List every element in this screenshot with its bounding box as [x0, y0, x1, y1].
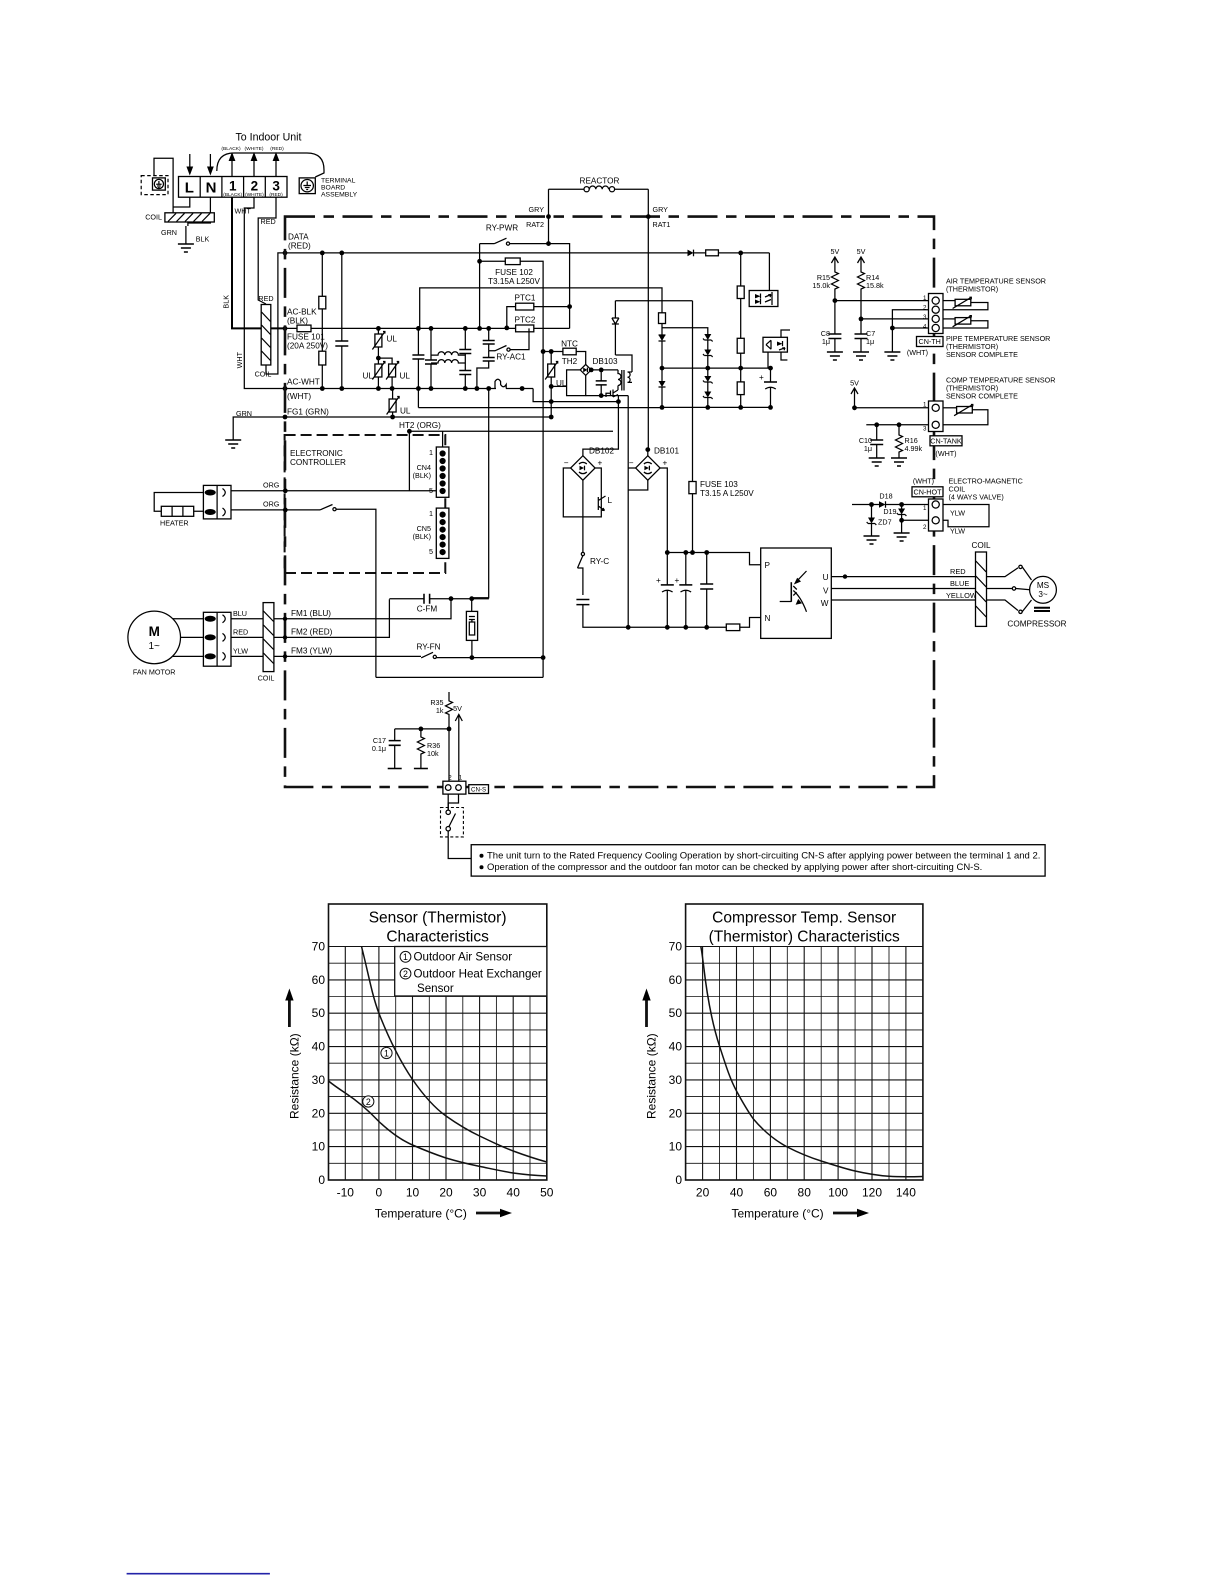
- zener D19: [897, 505, 907, 521]
- label CN-TANK box: [930, 436, 962, 446]
- wire red coil to DATA: [266, 253, 284, 374]
- svg-text:P: P: [765, 561, 771, 570]
- node FM border crossings: [283, 617, 287, 621]
- zener 1: [703, 334, 713, 350]
- svg-text:L: L: [185, 180, 194, 197]
- svg-text:3: 3: [923, 426, 927, 433]
- svg-text:−: −: [629, 459, 634, 468]
- diode on DATA rail: [687, 250, 706, 257]
- smps cap: [596, 368, 607, 399]
- smps output diode: [612, 301, 632, 372]
- zener column top wire to AC-BLK: [420, 288, 662, 329]
- wire AC-WHT tap to rectifier feed: [533, 389, 618, 402]
- hood arc over indoor-unit arrows: [217, 153, 324, 177]
- cap C7: [855, 319, 868, 352]
- svg-text:(RED): (RED): [269, 192, 283, 198]
- valve coil loop: [943, 505, 989, 527]
- svg-text:UL: UL: [400, 407, 411, 416]
- vertical to bottom bus: [627, 396, 629, 628]
- thermal protector: [466, 599, 477, 658]
- red coil choke vertical (hatched): [261, 305, 271, 366]
- svg-text:10: 10: [312, 1140, 326, 1154]
- label CN4 (BLK): [413, 463, 431, 480]
- RY-AC1 cap upper: [483, 326, 495, 351]
- svg-text:(BLK): (BLK): [287, 317, 308, 326]
- svg-text:4: 4: [923, 324, 927, 331]
- node DATA border: [283, 251, 288, 256]
- chart1 title: [369, 910, 507, 946]
- label ELECTRONIC CONTROLLER: [290, 449, 346, 467]
- RY-AC1 switch: [489, 328, 529, 351]
- smps transformer: [618, 370, 632, 391]
- chart2 y labels: [669, 940, 683, 1188]
- svg-text:UL: UL: [387, 335, 398, 344]
- svg-text:2: 2: [366, 1097, 371, 1107]
- dashed switch box: [441, 794, 464, 837]
- node bus1: [665, 550, 670, 555]
- svg-text:(BLK): (BLK): [413, 471, 431, 480]
- svg-text:0: 0: [318, 1173, 325, 1187]
- svg-text:YELLOW: YELLOW: [946, 591, 977, 600]
- varistor UL3: [378, 358, 398, 391]
- wire DB101 right to bus: [660, 468, 667, 553]
- svg-text:(THERMISTOR): (THERMISTOR): [946, 285, 998, 294]
- capacitor column x341: [335, 253, 348, 391]
- label TERMINAL BOARD ASSEMBLY: [321, 178, 358, 199]
- svg-text:0: 0: [675, 1173, 682, 1187]
- svg-text:CONTROLLER: CONTROLLER: [290, 458, 346, 467]
- arrow up from terminal 3: [273, 152, 280, 176]
- fuse F102: [480, 258, 543, 677]
- svg-text:Resistance (kΩ): Resistance (kΩ): [645, 1033, 659, 1119]
- label FUSE 103 T3.15 A L250V: [700, 480, 754, 498]
- svg-text:(BLK): (BLK): [413, 532, 431, 541]
- thermal M bump on AC-WHT: [495, 379, 506, 388]
- svg-text:5V: 5V: [831, 247, 840, 256]
- svg-text:To Indoor Unit: To Indoor Unit: [236, 132, 302, 144]
- label PIPE TEMPERATURE SENSOR (THERMISTOR) SENSOR COMPLETE: [946, 334, 1050, 359]
- svg-text:1μ: 1μ: [866, 337, 874, 346]
- svg-text:60: 60: [312, 973, 326, 987]
- svg-text:5: 5: [429, 547, 433, 556]
- legend item 2: [400, 967, 542, 980]
- diode D18: [879, 501, 929, 508]
- svg-text:T3.15 A L250V: T3.15 A L250V: [700, 489, 754, 498]
- wire RED from terminal 3 to red coil: [258, 197, 276, 304]
- label COMP TEMPERATURE SENSOR (THERMISTOR) SENSOR COMPLETE: [946, 376, 1055, 401]
- node bot2: [665, 625, 670, 630]
- wire DATA corner down: [768, 253, 770, 291]
- svg-text:60: 60: [764, 1186, 778, 1200]
- cap C17: [388, 729, 402, 769]
- node FG1 border: [283, 415, 288, 420]
- svg-text:BLUE: BLUE: [950, 579, 969, 588]
- DB102 bracket with transistor L: [563, 468, 605, 517]
- svg-text:(WHT): (WHT): [287, 392, 311, 401]
- wire terminal L down to coil: [173, 197, 190, 207]
- node AC-WHT fan branch: [486, 386, 491, 391]
- node AC-WHT border: [283, 386, 288, 391]
- svg-text:BOARD: BOARD: [321, 185, 345, 192]
- wire FG1 to ground: [233, 417, 284, 440]
- label C17 0.1u: [372, 736, 386, 753]
- IPM module box: [761, 548, 832, 638]
- wire DATA line: [284, 252, 687, 254]
- svg-text:120: 120: [862, 1186, 882, 1200]
- svg-text:10k: 10k: [427, 749, 439, 758]
- svg-text:1: 1: [229, 179, 237, 194]
- resistor on DATA rail: [706, 250, 770, 256]
- connector CN5: [436, 508, 449, 558]
- connector CN-S: [443, 781, 466, 794]
- svg-text:BLK: BLK: [222, 295, 231, 309]
- label C10 1u: [859, 436, 872, 453]
- svg-text:D18: D18: [879, 492, 892, 501]
- svg-text:M: M: [149, 624, 160, 639]
- node DATA r1: [320, 251, 325, 256]
- node U border: [843, 574, 847, 578]
- node AC-BLK border: [283, 326, 288, 331]
- dashed earth box left: [141, 176, 168, 195]
- svg-text:30: 30: [669, 1073, 683, 1087]
- svg-text:UL: UL: [400, 372, 411, 381]
- svg-text:DB103: DB103: [593, 357, 618, 366]
- svg-text:1: 1: [923, 402, 927, 409]
- heater loop: [154, 493, 203, 512]
- svg-text:AC-BLK: AC-BLK: [287, 308, 317, 317]
- node R14 pin3: [859, 317, 864, 322]
- svg-text:1: 1: [923, 295, 927, 302]
- svg-text:60: 60: [669, 973, 683, 987]
- wire C17 R36: [395, 728, 449, 730]
- svg-text:PTC2: PTC2: [515, 316, 536, 325]
- resistor R35: [446, 692, 453, 781]
- coil choke (hatched): [165, 213, 214, 222]
- svg-text:YLW: YLW: [950, 527, 965, 536]
- SECTION: smps rectifier: [533, 301, 1067, 639]
- DC bottom bus: [628, 618, 761, 628]
- fan wires to connector: [173, 619, 204, 657]
- ground symbol FG1: [225, 440, 241, 448]
- chart1 x axis arrow: [476, 1209, 512, 1217]
- svg-text:N: N: [765, 614, 771, 623]
- switch RY-FN: [376, 652, 546, 677]
- svg-text:BLU: BLU: [233, 609, 247, 618]
- label ELECTRO-MAGNETIC COIL (4 WAYS VALVE): [949, 477, 1023, 502]
- svg-text:3~: 3~: [1038, 590, 1048, 599]
- svg-text:Sensor: Sensor: [417, 982, 454, 995]
- heater element: [161, 506, 193, 516]
- svg-text:(RED): (RED): [288, 242, 311, 251]
- svg-text:50: 50: [540, 1186, 554, 1200]
- smps mosfet: [606, 390, 618, 398]
- connector CN4: [436, 447, 449, 497]
- wire AC-WHT bus: [284, 388, 533, 390]
- node ORG1 border: [283, 488, 288, 493]
- svg-text:CN-TH: CN-TH: [919, 337, 941, 346]
- footer rule: [127, 1573, 270, 1575]
- wire RY-FN line: [420, 657, 423, 659]
- fan wires to coil: [231, 619, 263, 657]
- svg-text:50: 50: [669, 1006, 683, 1020]
- 5V arrow R15: [831, 247, 840, 270]
- svg-text:GRY: GRY: [529, 205, 545, 214]
- resistor R14: [858, 270, 865, 319]
- svg-text:RED: RED: [258, 294, 273, 303]
- smps bottom wire: [586, 395, 629, 397]
- svg-text:ASSEMBLY: ASSEMBLY: [321, 192, 358, 199]
- svg-text:PTC1: PTC1: [515, 294, 536, 303]
- svg-text:Characteristics: Characteristics: [386, 929, 489, 946]
- chart1 legend box: [395, 947, 547, 997]
- wire HT2: [409, 431, 613, 491]
- node tap UL: [549, 399, 554, 404]
- wire middle to zener column: [662, 328, 708, 334]
- svg-text:40: 40: [730, 1186, 744, 1200]
- wire coil to ground: [185, 226, 187, 244]
- electronic controller dashed box: [285, 435, 446, 573]
- svg-text:COIL: COIL: [145, 213, 162, 222]
- chart2 x axis arrow: [833, 1209, 869, 1217]
- filter inductor bottom: [431, 360, 465, 363]
- svg-text:20: 20: [669, 1106, 683, 1120]
- wire RY-PWR down to fuse102: [479, 244, 481, 329]
- resistor column x322 lower: [319, 351, 326, 391]
- svg-text:RY-FN: RY-FN: [416, 643, 440, 652]
- RY-PWR wire: [480, 244, 570, 307]
- svg-text:MS: MS: [1037, 581, 1050, 590]
- svg-text:3: 3: [272, 179, 280, 194]
- SECTION: controller fan: [128, 431, 546, 682]
- node AC-BLK x479: [477, 326, 482, 331]
- svg-text:-10: -10: [337, 1186, 355, 1200]
- svg-text:Outdoor Heat Exchanger: Outdoor Heat Exchanger: [414, 967, 542, 980]
- chart1 grid major: [329, 947, 547, 1181]
- pin labels CN-HOT: [923, 505, 927, 531]
- connector CN-TH: [929, 294, 944, 334]
- wire reactor left RAT2: [548, 189, 550, 243]
- svg-text:DB102: DB102: [589, 447, 614, 456]
- svg-text:+: +: [656, 576, 661, 585]
- electrolytic cap right: [759, 366, 777, 410]
- svg-text:BLK: BLK: [196, 235, 210, 244]
- fuse F103: [689, 301, 696, 553]
- svg-text:FUSE 101: FUSE 101: [287, 333, 325, 342]
- svg-text:40: 40: [312, 1040, 326, 1054]
- chart1 y labels: [312, 940, 326, 1188]
- DB103 left loop: [567, 370, 586, 396]
- label AIR TEMPERATURE SENSOR (THERMISTOR): [946, 277, 1046, 294]
- node bot1: [626, 625, 631, 630]
- chart2 grid minor: [686, 947, 923, 1181]
- svg-text:CN-S: CN-S: [471, 787, 486, 794]
- label AC-WHT (WHT): [287, 378, 320, 402]
- svg-text:1: 1: [459, 775, 463, 782]
- resistor column x322 upper: [319, 253, 326, 351]
- ground C7: [853, 352, 869, 360]
- node RAT1 on border: [646, 214, 651, 219]
- shunt resistor: [726, 624, 740, 631]
- node bus2: [683, 550, 688, 555]
- svg-text:DB101: DB101: [654, 447, 679, 456]
- varistor UL smps: [545, 352, 566, 420]
- ground pins24: [884, 352, 900, 360]
- NTC thermistor TH2: [543, 348, 586, 364]
- wire earth-box to coil: [154, 158, 173, 213]
- zener 4: [703, 392, 713, 410]
- svg-text:RY-AC1: RY-AC1: [496, 353, 526, 362]
- label CN5 (BLK): [413, 524, 431, 541]
- svg-text:20: 20: [439, 1186, 453, 1200]
- node bot4: [704, 625, 709, 630]
- cap C-FM: [389, 594, 489, 604]
- svg-text:Temperature (°C): Temperature (°C): [732, 1207, 824, 1221]
- svg-text:FM1 (BLU): FM1 (BLU): [291, 609, 331, 618]
- node DB103 right: [589, 368, 594, 373]
- RY-C switch: [578, 552, 585, 595]
- note bullet 1: [480, 854, 484, 858]
- label CN-TH box: [917, 337, 944, 347]
- svg-text:5V: 5V: [857, 247, 866, 256]
- svg-text:1μ: 1μ: [822, 337, 830, 346]
- wire DB102 top to smps return: [583, 396, 619, 456]
- chart2 x labels: [696, 1186, 916, 1200]
- ground R16: [891, 458, 907, 466]
- electrolytic cap 2: [675, 553, 693, 628]
- optocoupler PC2: [763, 330, 790, 368]
- resistor column x739 r2: [737, 338, 744, 370]
- wire ORG1: [231, 490, 436, 492]
- zener 2: [703, 350, 713, 371]
- label FUSE 102 T3.15A L250V: [488, 268, 540, 286]
- node tap join: [616, 399, 621, 404]
- wire DB101 left return: [628, 467, 635, 469]
- svg-text:Resistance (kΩ): Resistance (kΩ): [288, 1033, 302, 1119]
- zener 3: [703, 368, 713, 391]
- svg-text:+: +: [759, 373, 764, 382]
- svg-text:(RED): (RED): [270, 146, 284, 152]
- node D19 bottom: [899, 518, 904, 523]
- svg-text:5V: 5V: [850, 379, 859, 388]
- svg-text:FUSE 102: FUSE 102: [495, 268, 533, 277]
- svg-text:1k: 1k: [436, 706, 444, 715]
- SECTION: charts: [285, 904, 554, 1221]
- svg-text:The unit turn to the Rated Fre: The unit turn to the Rated Frequency Coo…: [487, 851, 1040, 862]
- main PCB dash-dot border: [285, 217, 934, 787]
- svg-text:70: 70: [669, 940, 683, 954]
- ground ZD7: [864, 536, 880, 544]
- chart2 curve: [701, 947, 923, 1177]
- svg-text:3: 3: [923, 314, 927, 321]
- svg-text:W: W: [821, 599, 829, 608]
- node UL smps top: [549, 349, 554, 354]
- RY-PWR switch: [495, 238, 510, 245]
- middle column diode 2: [659, 368, 666, 410]
- PTC2: [507, 307, 570, 332]
- svg-text:FAN MOTOR: FAN MOTOR: [133, 668, 176, 677]
- svg-text:Compressor Temp. Sensor: Compressor Temp. Sensor: [712, 910, 896, 927]
- svg-text:GRN: GRN: [161, 228, 177, 237]
- svg-text:COIL: COIL: [971, 541, 991, 550]
- zener ZD7: [867, 505, 877, 537]
- svg-text:TH2: TH2: [562, 357, 578, 366]
- svg-text:0.1μ: 0.1μ: [372, 744, 386, 753]
- node R15 pin1: [833, 298, 838, 303]
- wire switch to note: [448, 837, 471, 859]
- svg-text:RED: RED: [233, 628, 248, 637]
- wire pin3: [861, 318, 929, 320]
- svg-text:Sensor (Thermistor): Sensor (Thermistor): [369, 910, 507, 927]
- svg-text:DATA: DATA: [288, 233, 309, 242]
- ground C8: [827, 352, 843, 360]
- svg-text:HT2 (ORG): HT2 (ORG): [399, 421, 441, 430]
- SECTION: terminal board: [141, 132, 357, 449]
- curve marker 2: [363, 1096, 374, 1107]
- svg-text:1μ: 1μ: [864, 444, 872, 453]
- note box: [471, 845, 1045, 876]
- svg-text:2: 2: [403, 969, 408, 979]
- IPM IGBT symbol: [780, 571, 807, 612]
- svg-text:15.8k: 15.8k: [866, 281, 884, 290]
- chart1 x labels: [337, 1186, 554, 1200]
- middle column resistor: [659, 313, 666, 335]
- label R16 4.99k: [905, 436, 923, 453]
- wire bracket to RY-C: [582, 517, 584, 552]
- node C-FM right: [469, 596, 474, 601]
- svg-text:FUSE 103: FUSE 103: [700, 480, 738, 489]
- PTC1: [504, 303, 572, 330]
- wire DB103 right: [591, 369, 618, 371]
- svg-text:RY-PWR: RY-PWR: [486, 224, 518, 233]
- label C7 1u: [866, 329, 875, 346]
- pipe thermistor: [943, 316, 988, 328]
- svg-text:YLW: YLW: [233, 647, 248, 656]
- wire U to compressor: [831, 576, 975, 578]
- compressor contact 1: [987, 565, 1032, 580]
- svg-text:RY-C: RY-C: [590, 557, 609, 566]
- label CN-HOT box: [912, 487, 943, 497]
- connector CN-TANK: [929, 401, 944, 432]
- RY-C cap: [576, 600, 628, 628]
- electrolytic cap 1: [656, 553, 674, 628]
- pin labels CN-TH: [923, 295, 927, 331]
- wire AC-BLK bus: [284, 327, 507, 329]
- node R36 junction: [447, 727, 452, 732]
- chart1 grid minor: [329, 947, 547, 1181]
- wire BLK from terminal 1 to AC-BLK: [232, 197, 284, 328]
- terminal board assembly earth symbol: [299, 178, 315, 194]
- fan coil (hatched): [263, 603, 274, 672]
- svg-text:REACTOR: REACTOR: [580, 177, 620, 186]
- wire D18 rail: [852, 504, 879, 506]
- svg-text:1: 1: [403, 952, 408, 962]
- svg-text:1: 1: [429, 448, 433, 457]
- RY-AC1 cap lower: [475, 351, 495, 391]
- smps top rail: [615, 300, 692, 302]
- svg-text:CN-HOT: CN-HOT: [914, 488, 943, 497]
- ground pin2: [894, 533, 910, 541]
- bottom bus right: [418, 406, 770, 408]
- svg-text:COMPRESSOR: COMPRESSOR: [1007, 620, 1066, 629]
- svg-text:GRY: GRY: [653, 205, 669, 214]
- svg-text:(WHITE): (WHITE): [245, 192, 264, 198]
- wire terminal N down to coil: [188, 197, 211, 226]
- svg-text:Outdoor Air Sensor: Outdoor Air Sensor: [414, 951, 513, 964]
- svg-text:RAT2: RAT2: [526, 220, 544, 229]
- SECTION: power input: [283, 224, 687, 678]
- wire tank pin1: [855, 401, 929, 408]
- wire pin2 to gnd: [902, 520, 929, 533]
